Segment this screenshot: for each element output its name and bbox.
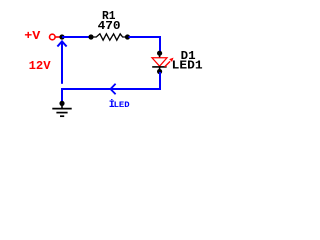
node A junction dot (59, 34, 64, 39)
current direction chevron arrow on bottom wire (111, 84, 116, 94)
voltage arrow annotation (blue, pointing up at node +V) (61, 43, 63, 84)
svg-text:LED1: LED1 (172, 59, 203, 73)
node LED top dot (157, 51, 162, 56)
svg-text:+V: +V (24, 29, 40, 43)
LED D1 triangle (152, 58, 167, 66)
terminal +V (50, 34, 56, 40)
ground (61, 103, 63, 108)
wire (black pin stub above LED) (159, 53, 161, 58)
wire (top right, resistor to LED branch corner) (129, 37, 161, 53)
LED D1 cathode bar (152, 66, 166, 68)
wire (red stub from terminal to junction) (55, 36, 60, 38)
node ground junction dot (59, 101, 64, 106)
LED D1 emission arrow (165, 61, 171, 67)
wire (top left, junction to resistor) (62, 36, 90, 38)
wire (LED bottom down, bottom rail, up-left to ground branch) (62, 72, 160, 102)
node resistor right dot (125, 34, 130, 39)
svg-text:470: 470 (98, 19, 121, 33)
svg-text:LED: LED (114, 100, 130, 110)
wire (black pin stub below LED) (159, 67, 161, 71)
node resistor left dot (88, 34, 93, 39)
svg-text:12V: 12V (29, 59, 51, 73)
node LED bottom dot (157, 69, 162, 74)
resistor R1 zigzag (93, 34, 126, 40)
